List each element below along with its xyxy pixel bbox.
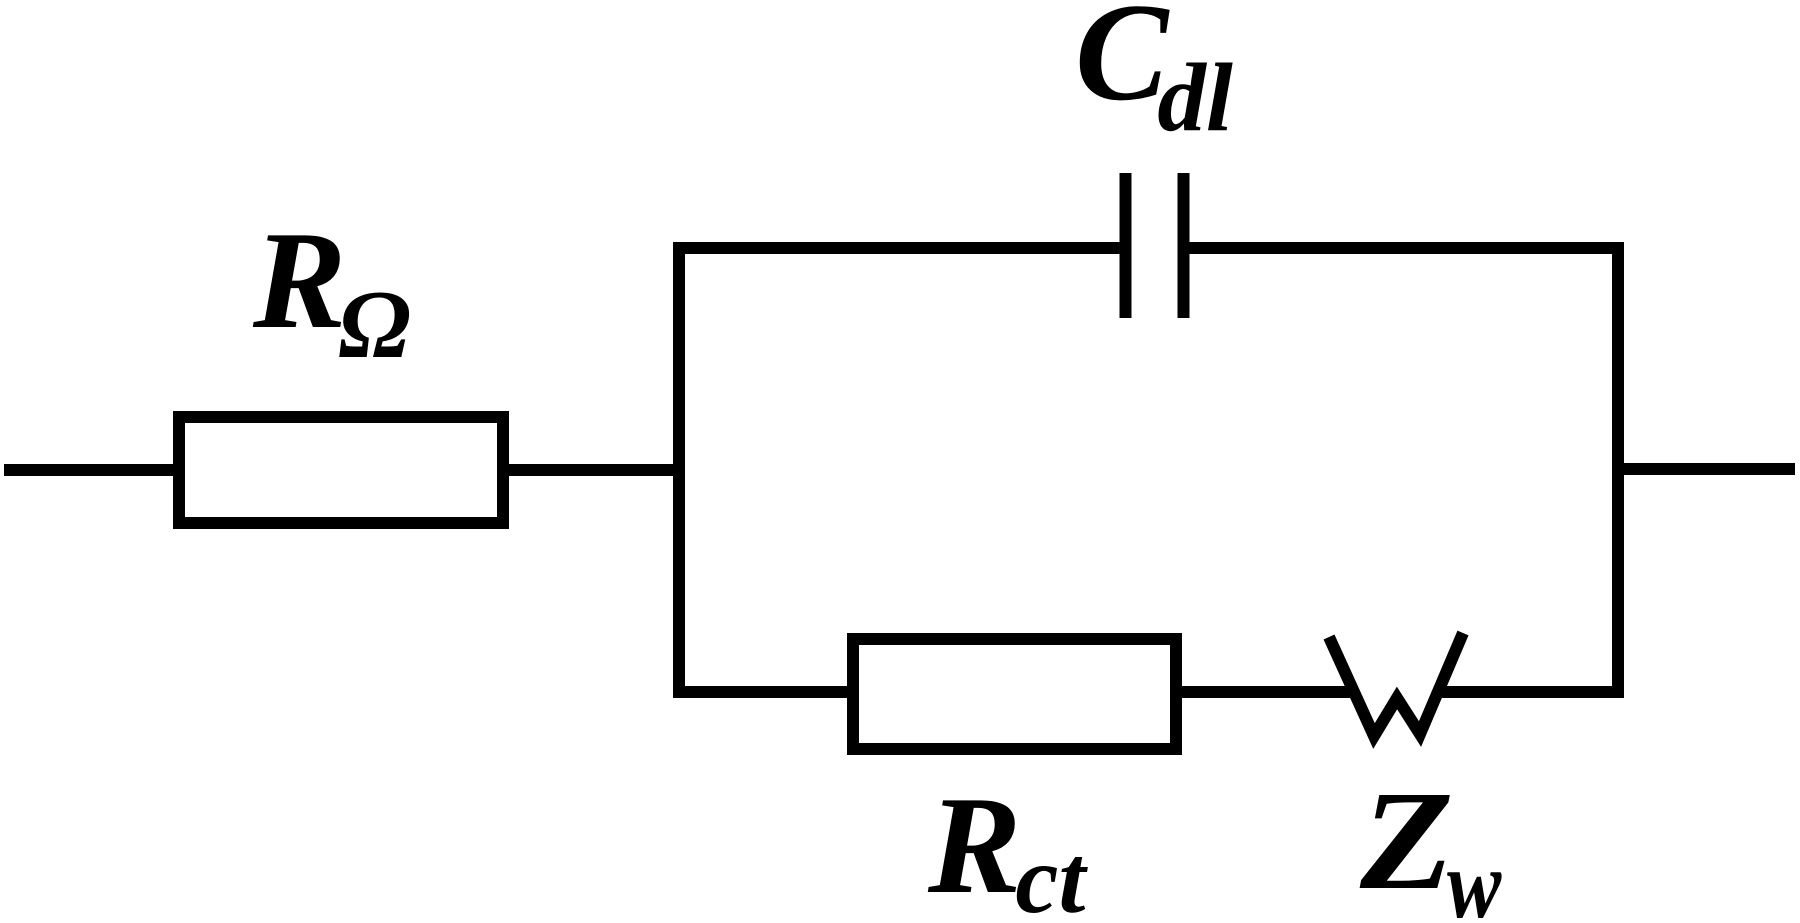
svg-text:Cdl: Cdl bbox=[1075, 0, 1233, 151]
resistor R_ct bbox=[853, 639, 1176, 749]
left lead wire bbox=[4, 464, 180, 476]
svg-text:w: w bbox=[1447, 831, 1502, 923]
Warburg impedance Z_w symbol bbox=[1329, 633, 1463, 736]
top-right wire + right vertical + bottom-right wire bbox=[1189, 248, 1618, 692]
right lead wire bbox=[1624, 463, 1795, 475]
capacitor C_dl right plate bbox=[1178, 173, 1190, 318]
svg-text:RΩ: RΩ bbox=[252, 203, 411, 378]
resistor R_omega bbox=[179, 417, 503, 523]
svg-text:Z: Z bbox=[1359, 761, 1454, 919]
wire resistor to node A bbox=[503, 464, 685, 476]
capacitor C_dl left plate bbox=[1120, 173, 1132, 318]
wire R_ct to Warburg bbox=[1176, 686, 1354, 698]
node A left branch: vertical + top-left wire + bottom-left wire bbox=[679, 248, 1122, 692]
svg-text:Rct: Rct bbox=[927, 768, 1088, 923]
